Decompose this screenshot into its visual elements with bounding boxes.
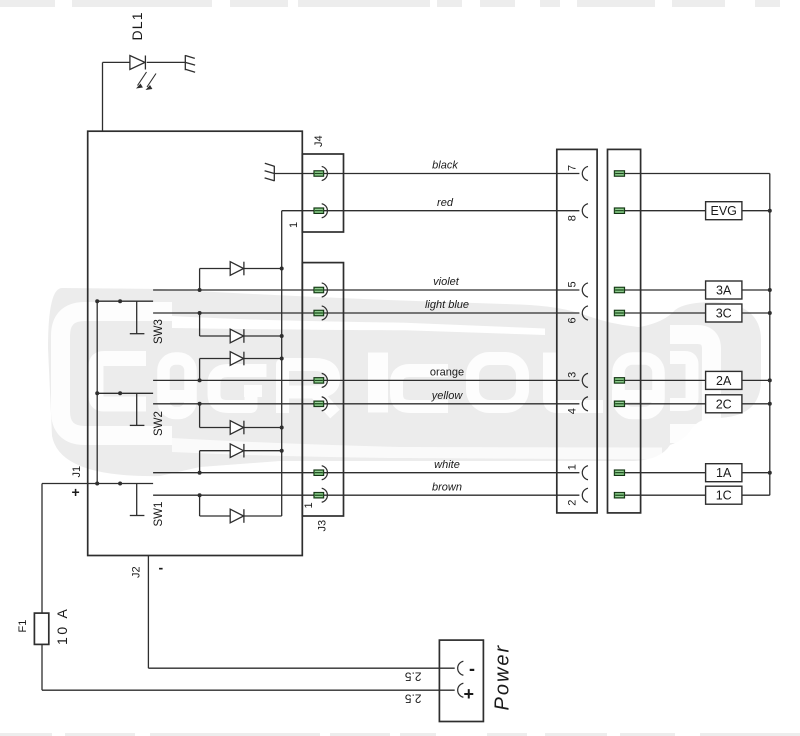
svg-text:4: 4 xyxy=(567,408,579,414)
svg-text:J2: J2 xyxy=(131,566,143,578)
svg-text:3C: 3C xyxy=(716,307,732,321)
svg-text:EVG: EVG xyxy=(710,204,736,218)
svg-text:white: white xyxy=(434,459,460,471)
svg-text:2A: 2A xyxy=(716,374,732,388)
svg-text:1A: 1A xyxy=(716,466,732,480)
svg-text:1C: 1C xyxy=(716,489,732,503)
svg-text:6: 6 xyxy=(567,317,579,323)
svg-text:3: 3 xyxy=(567,372,579,378)
svg-text:-: - xyxy=(159,560,164,576)
svg-text:brown: brown xyxy=(432,482,462,494)
svg-text:1: 1 xyxy=(303,502,315,508)
svg-text:J4: J4 xyxy=(313,135,325,147)
svg-text:DL1: DL1 xyxy=(129,11,145,40)
svg-text:1: 1 xyxy=(288,222,300,228)
svg-text:red: red xyxy=(437,197,454,209)
svg-text:2: 2 xyxy=(567,500,579,506)
svg-text:2.5: 2.5 xyxy=(404,670,421,684)
svg-text:2C: 2C xyxy=(716,397,732,411)
svg-text:orange: orange xyxy=(430,367,464,379)
svg-text:J1: J1 xyxy=(71,466,83,478)
svg-text:violet: violet xyxy=(433,276,460,288)
svg-text:3A: 3A xyxy=(716,284,732,298)
svg-text:J3: J3 xyxy=(317,520,329,532)
svg-text:SW2: SW2 xyxy=(153,411,165,436)
svg-text:8: 8 xyxy=(567,215,579,221)
svg-text:SW3: SW3 xyxy=(153,319,165,344)
svg-text:+: + xyxy=(72,484,80,500)
svg-text:black: black xyxy=(432,160,458,172)
svg-text:+: + xyxy=(464,684,475,704)
svg-text:10 A: 10 A xyxy=(54,607,70,645)
svg-text:1: 1 xyxy=(567,464,579,470)
svg-text:2.5: 2.5 xyxy=(404,692,421,706)
svg-text:7: 7 xyxy=(567,165,579,171)
svg-text:SW1: SW1 xyxy=(153,502,165,527)
svg-text:light blue: light blue xyxy=(425,299,469,311)
svg-text:F1: F1 xyxy=(17,620,29,633)
svg-text:Power: Power xyxy=(492,644,514,711)
svg-text:5: 5 xyxy=(567,281,579,287)
svg-text:-: - xyxy=(469,659,475,679)
svg-text:yellow: yellow xyxy=(431,390,464,402)
